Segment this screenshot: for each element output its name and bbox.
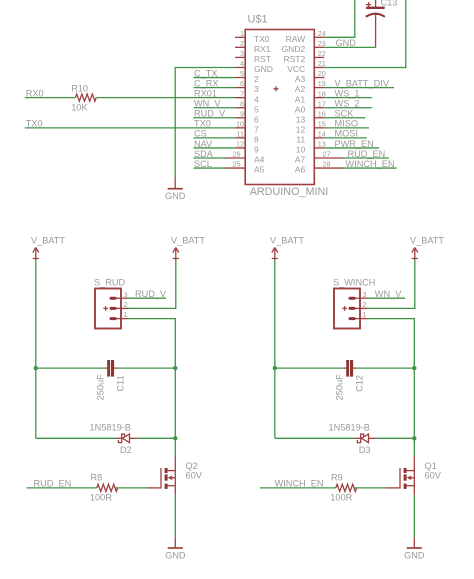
resistor R9 [336,484,357,491]
svg-text:RUD_V: RUD_V [135,289,167,299]
svg-text:3: 3 [240,49,244,58]
svg-text:WS_1: WS_1 [335,88,360,98]
wire RX01 net: RX0 flag through R10 to pin7 [25,97,235,99]
C13 value label [381,0,398,8]
transistor Q1 (n-mosfet) [386,456,414,495]
svg-text:11: 11 [237,130,244,139]
node CS net label [194,129,207,139]
svg-text:7: 7 [254,124,259,134]
svg-text:R8: R8 [91,472,103,482]
D2 reference label [120,445,132,455]
wire pin4 GND to ground [175,67,235,177]
junction node/C11 [173,366,177,370]
wire S_RUD pin1 to load node [129,319,176,457]
svg-text:RUD_EN: RUD_EN [34,479,72,489]
svg-text:28: 28 [323,160,331,169]
svg-text:Q1: Q1 [425,461,437,471]
svg-text:24: 24 [318,29,326,38]
node RUD_V net label [194,109,226,119]
svg-text:3: 3 [124,290,128,299]
IC left pin names [254,34,273,175]
R8 reference label [91,472,103,482]
svg-text:A4: A4 [254,155,265,165]
wire net V_BATT_DIV (pin row) [324,87,394,89]
svg-text:MOSI: MOSI [335,129,358,139]
R8 value label 100R [90,493,112,503]
node MOSI net label [335,129,358,139]
svg-text:RX01: RX01 [194,88,217,98]
node RUD_EN net label [348,149,386,159]
node TX0 net label [194,119,211,129]
svg-text:6: 6 [254,114,259,124]
node SCK net label [335,109,355,119]
svg-text:1: 1 [240,29,244,38]
node NAV net label [194,139,213,149]
junction node/D2 [173,436,177,440]
node C_RX net label [194,78,219,88]
svg-text:D3: D3 [359,445,371,455]
svg-text:25: 25 [233,160,241,169]
wire Q2 source to ground [174,495,176,537]
svg-text:ARDUINO_MINI: ARDUINO_MINI [250,186,329,198]
R9 reference label [331,472,343,482]
svg-text:RUD_V: RUD_V [194,109,226,119]
ground symbol (Q2 source) [168,537,183,548]
svg-text:12: 12 [236,140,244,149]
svg-text:GND2: GND2 [282,44,306,54]
svg-text:RX1: RX1 [254,44,271,54]
wire net WS_1 (pin row) [324,97,372,99]
svg-text:60V: 60V [425,471,442,481]
svg-text:15: 15 [318,119,326,128]
wire VCC pin21 to top edge [324,0,405,67]
svg-text:C_TX: C_TX [194,68,218,78]
svg-text:WINCH_EN: WINCH_EN [346,159,395,169]
svg-text:250uF: 250uF [95,374,105,400]
svg-text:GND: GND [165,191,186,201]
svg-text:V_BATT: V_BATT [410,235,444,245]
wire net MOSI (pin row) [324,137,366,139]
svg-text:27: 27 [323,150,331,159]
svg-text:WS_2: WS_2 [335,99,360,109]
IC left pin stubs [225,37,245,168]
wire C12 row [275,367,415,369]
node TX0 flag label [26,119,43,129]
wire S_RUD pin3 RUD_V stub [129,297,167,299]
svg-text:2: 2 [254,74,259,84]
wire S_WINCH pin1 to load node [368,319,415,457]
svg-text:2: 2 [124,300,128,309]
svg-text:3: 3 [254,84,259,94]
wire V_BATT 4 to S_WINCH pin2 [368,260,415,309]
svg-text:9: 9 [254,145,259,155]
svg-text:S_RUD: S_RUD [94,278,126,288]
svg-text:WINCH_EN: WINCH_EN [275,479,324,489]
S_RUD pin numbers 3 2 1 [124,290,128,319]
svg-text:21: 21 [318,59,326,68]
node SCL net label [194,159,212,169]
wire net SCL [194,167,226,169]
R10 value label 10K [71,102,88,112]
power symbol V_BATT (column 2) [173,247,179,259]
GND label (Q2) [165,551,186,561]
node WN_V net label [194,99,221,109]
svg-text:60V: 60V [186,471,203,481]
svg-text:R10: R10 [71,83,88,93]
svg-text:1N5819-B: 1N5819-B [329,422,370,432]
svg-text:MISO: MISO [335,119,358,129]
wire TX0 net: TX0 flag to pin10 [25,127,235,129]
wire net WS_2 (pin row) [324,107,372,109]
capacitor C13 [366,0,385,47]
D2 value label 1N5819-B [90,422,131,432]
R9 value label 100R [330,493,352,503]
svg-text:1N5819-B: 1N5819-B [90,422,131,432]
svg-text:GND: GND [336,38,357,48]
svg-text:TX0: TX0 [26,119,43,129]
power symbol V_BATT (rail 3) [272,247,278,259]
node WS_2 net label [335,99,360,109]
svg-text:8: 8 [254,135,259,145]
svg-text:20: 20 [318,69,326,78]
node RX01 net label [194,88,217,98]
wire S_WINCH pin3 WN_V stub [368,297,406,299]
svg-text:22: 22 [318,49,326,58]
ground symbol (Q1 source) [407,537,422,548]
wire net RUD_V [194,117,236,119]
svg-text:TX0: TX0 [194,119,211,129]
wire GND2 pin23 to C13 [324,46,375,48]
wire net C_TX [194,77,236,79]
svg-text:C_RX: C_RX [194,78,219,88]
Q1 value label 60V [425,471,442,481]
node WS_1 net label [335,88,360,98]
svg-text:V_BATT: V_BATT [171,235,205,245]
svg-text:5: 5 [240,69,244,78]
wire RAW pin24 to top edge [324,0,354,37]
svg-text:GND: GND [404,551,425,561]
svg-text:S_WINCH: S_WINCH [333,278,375,288]
R10 reference label [71,83,88,93]
D3 reference label [359,445,371,455]
svg-text:V_BATT: V_BATT [31,235,65,245]
power symbol V_BATT (column 4) [412,247,418,259]
ground symbol (below IC) [168,178,183,189]
svg-text:6: 6 [240,79,244,88]
svg-text:5: 5 [254,104,259,114]
Q1 reference label [425,461,437,471]
wire R9 to Q1 gate [354,487,386,489]
node RUD_EN net label [34,479,72,489]
wire net MISO (pin row) [324,127,369,129]
power symbol V_BATT (rail 1) [33,247,39,259]
svg-text:3: 3 [363,290,367,299]
wire D3 row [275,437,415,439]
svg-text:A0: A0 [295,104,306,114]
svg-text:V_BATT_DIV: V_BATT_DIV [335,78,390,88]
svg-text:8: 8 [240,99,244,108]
IC right pin numbers [318,29,331,169]
svg-text:2: 2 [240,39,244,48]
wire WINCH_EN to R9 [260,487,336,489]
IC right pin stubs [314,37,344,168]
node RX0 flag label [26,88,44,98]
IC U$1 ARDUINO_MINI body [245,30,314,185]
connector S_WINCH [334,289,368,329]
svg-text:D2: D2 [120,445,132,455]
GND label (below IC) [165,191,186,201]
svg-text:V_BATT: V_BATT [270,235,304,245]
svg-text:TX0: TX0 [254,34,270,44]
svg-text:SCK: SCK [335,109,355,119]
ARDUINO_MINI value label [250,186,329,198]
svg-text:100R: 100R [90,493,112,503]
junction node/D3 [412,436,416,440]
GND label (Q1) [404,551,425,561]
wire V_BATT rail 3 vertical [274,260,276,439]
wire RUD_EN to R8 [27,487,97,489]
svg-text:11: 11 [296,135,305,145]
wire net WINCH_EN (pin row) [344,167,397,169]
wire D2 row [36,437,176,439]
svg-text:9: 9 [240,109,244,118]
svg-text:4: 4 [240,59,244,68]
wire net PWR_EN (pin row) [324,147,379,149]
svg-text:Q2: Q2 [186,461,198,471]
svg-text:100R: 100R [330,493,352,503]
svg-text:C13: C13 [381,0,398,8]
node WN_V net label [375,289,402,299]
capacitor C11 [105,360,117,377]
node V_BATT label 4 [410,235,444,245]
svg-text:RST2: RST2 [283,54,305,64]
IC right pin names [282,34,306,175]
node RUD_V net label [135,289,167,299]
C11 reference label [115,375,125,391]
svg-text:10: 10 [236,119,244,128]
IC left pin numbers [233,29,245,169]
node V_BATT label 3 [270,235,304,245]
wire C11 row [36,367,176,369]
resistor R8 [97,484,118,491]
svg-text:RX0: RX0 [26,88,44,98]
svg-text:A3: A3 [295,74,306,84]
wire net RUD_EN (pin row) [344,157,389,159]
S_WINCH reference label [333,278,375,288]
wire net SCK (pin row) [324,117,365,119]
wire V_BATT rail 1 vertical [35,260,37,439]
junction node/C12 [412,366,416,370]
svg-text:VCC: VCC [287,64,305,74]
node SDA net label [194,149,214,159]
wire V_BATT 2 to S_RUD pin2 [129,260,176,309]
svg-text:NAV: NAV [194,139,213,149]
svg-text:19: 19 [318,79,326,88]
U$1 reference label [248,14,268,26]
svg-text:R9: R9 [331,472,343,482]
node WINCH_EN net label [275,479,324,489]
node PWR_EN net label [335,139,374,149]
svg-text:SCL: SCL [194,159,212,169]
svg-text:RST: RST [254,54,271,64]
node V_BATT label 1 [31,235,65,245]
svg-text:13: 13 [296,114,306,124]
svg-text:RAW: RAW [286,34,306,44]
svg-text:GND: GND [254,64,273,74]
junction rail1/C11 [34,366,38,370]
svg-text:10: 10 [296,145,306,155]
wire net SDA [194,157,226,159]
S_WINCH pin numbers 3 2 1 [363,290,367,319]
svg-text:WN_V: WN_V [375,289,402,299]
svg-text:PWR_EN: PWR_EN [335,139,374,149]
svg-text:U$1: U$1 [248,14,268,26]
svg-text:17: 17 [318,99,326,108]
svg-text:SDA: SDA [194,149,214,159]
svg-text:23: 23 [318,39,326,48]
svg-text:C12: C12 [354,375,364,392]
svg-text:16: 16 [318,109,326,118]
svg-text:A2: A2 [295,84,306,94]
D3 value label 1N5819-B [329,422,370,432]
diode D3 (schottky) [354,434,376,443]
node MISO net label [335,119,358,129]
svg-text:A5: A5 [254,165,265,175]
svg-text:13: 13 [318,140,326,149]
node WINCH_EN net label [346,159,395,169]
svg-text:18: 18 [318,89,326,98]
node V_BATT_DIV net label [335,78,390,88]
node C_TX net label [194,68,218,78]
connector S_RUD [95,289,129,329]
S_RUD reference label [94,278,126,288]
svg-text:A1: A1 [295,94,306,104]
wire R8 to Q2 gate [115,487,147,489]
diode D2 (schottky) [115,434,137,443]
svg-text:2: 2 [363,300,367,309]
wire net CS [194,137,236,139]
wire net WN_V [194,107,236,109]
svg-text:4: 4 [254,94,259,104]
svg-text:A6: A6 [295,165,306,175]
resistor R10 [75,94,96,101]
C12 reference label [354,375,364,392]
transistor Q2 (n-mosfet) [147,456,175,495]
svg-text:1: 1 [124,310,128,319]
capacitor C12 [344,360,356,377]
C11 value label 250uF [95,374,105,400]
wire net C_RX [194,87,236,89]
node V_BATT label 2 [171,235,205,245]
wire Q1 source to ground [413,495,415,537]
svg-text:7: 7 [240,89,244,98]
Q2 reference label [186,461,198,471]
svg-text:12: 12 [296,124,306,134]
svg-text:GND: GND [165,551,186,561]
Q2 value label 60V [186,471,203,481]
C12 value label 250uF [334,374,344,400]
wire net NAV [194,147,236,149]
svg-text:CS: CS [194,129,207,139]
svg-text:WN_V: WN_V [194,99,221,109]
svg-text:250uF: 250uF [334,374,344,400]
svg-text:C11: C11 [115,375,125,391]
svg-text:26: 26 [233,150,241,159]
svg-text:10K: 10K [71,102,88,112]
svg-text:RUD_EN: RUD_EN [348,149,386,159]
svg-text:14: 14 [318,130,326,139]
svg-text:A7: A7 [295,155,306,165]
junction rail3/C12 [273,366,277,370]
node GND label (pin23) [336,38,357,48]
svg-text:1: 1 [363,310,367,319]
